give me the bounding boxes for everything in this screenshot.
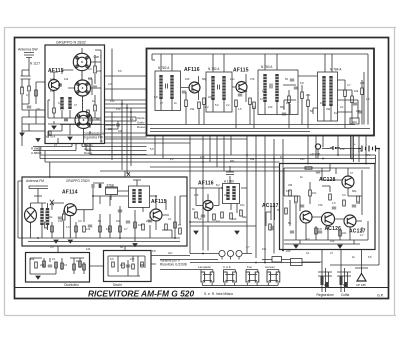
svg-text:1k: 1k bbox=[352, 255, 355, 259]
svg-text:8,2: 8,2 bbox=[280, 155, 284, 159]
svg-text:424: 424 bbox=[352, 120, 357, 124]
svg-text:68p: 68p bbox=[242, 215, 247, 219]
svg-text:N 782 A: N 782 A bbox=[208, 67, 220, 71]
svg-text:22n: 22n bbox=[342, 231, 347, 235]
svg-text:Verde: Verde bbox=[137, 116, 145, 120]
svg-text:6,8: 6,8 bbox=[300, 81, 304, 85]
svg-text:A 886/6: A 886/6 bbox=[31, 151, 42, 155]
svg-text:1,5: 1,5 bbox=[332, 201, 336, 205]
svg-text:+9 Volt: +9 Volt bbox=[310, 153, 320, 157]
svg-text:15n: 15n bbox=[300, 157, 305, 161]
svg-text:12k: 12k bbox=[64, 77, 69, 81]
svg-text:10k: 10k bbox=[320, 101, 325, 105]
svg-text:Dischi: Dischi bbox=[113, 283, 122, 287]
svg-text:470: 470 bbox=[340, 147, 345, 151]
svg-text:47: 47 bbox=[350, 171, 353, 175]
svg-text:Fon: Fon bbox=[247, 265, 253, 269]
svg-text:6,8: 6,8 bbox=[154, 95, 158, 99]
svg-text:22n: 22n bbox=[116, 219, 121, 223]
svg-text:1,5: 1,5 bbox=[366, 97, 370, 101]
svg-text:AF115: AF115 bbox=[151, 199, 167, 205]
svg-text:Ricevitore G.520/B: Ricevitore G.520/B bbox=[160, 263, 187, 267]
svg-text:100: 100 bbox=[232, 217, 237, 221]
svg-text:AF115: AF115 bbox=[233, 68, 249, 74]
svg-text:12k: 12k bbox=[86, 227, 91, 231]
svg-text:47: 47 bbox=[178, 223, 181, 227]
svg-text:3,3: 3,3 bbox=[342, 193, 346, 197]
svg-text:2,2: 2,2 bbox=[216, 219, 220, 223]
svg-text:10k: 10k bbox=[262, 247, 267, 251]
svg-text:Lampada: Lampada bbox=[198, 265, 211, 269]
svg-text:68p: 68p bbox=[280, 105, 285, 109]
svg-text:N 775 A: N 775 A bbox=[45, 135, 55, 139]
svg-text:5,6: 5,6 bbox=[286, 189, 290, 193]
svg-text:2,2: 2,2 bbox=[170, 157, 174, 161]
svg-text:0,1: 0,1 bbox=[130, 117, 134, 121]
svg-text:12k: 12k bbox=[262, 89, 267, 93]
svg-text:47: 47 bbox=[74, 103, 77, 107]
svg-text:5,6: 5,6 bbox=[118, 69, 122, 73]
svg-text:AC126: AC126 bbox=[325, 226, 342, 232]
svg-text:470: 470 bbox=[318, 203, 323, 207]
svg-text:3,3: 3,3 bbox=[88, 67, 92, 71]
svg-text:3,3: 3,3 bbox=[50, 245, 54, 249]
svg-text:Giallo: Giallo bbox=[137, 121, 145, 125]
svg-text:6,8: 6,8 bbox=[318, 227, 322, 231]
svg-text:N 1127: N 1127 bbox=[30, 62, 40, 66]
svg-text:5,6: 5,6 bbox=[215, 103, 219, 107]
svg-text:100: 100 bbox=[185, 77, 190, 81]
svg-text:AP 185: AP 185 bbox=[356, 283, 366, 287]
svg-text:2,2: 2,2 bbox=[306, 237, 310, 241]
svg-text:8,2: 8,2 bbox=[216, 183, 220, 187]
svg-text:10k: 10k bbox=[88, 76, 93, 80]
svg-text:33k: 33k bbox=[250, 157, 255, 161]
svg-text:3,3: 3,3 bbox=[356, 109, 360, 113]
svg-text:8,2: 8,2 bbox=[205, 105, 209, 109]
svg-text:22n: 22n bbox=[36, 107, 41, 111]
svg-text:12k: 12k bbox=[86, 247, 91, 251]
svg-text:47: 47 bbox=[330, 251, 333, 255]
svg-text:22n: 22n bbox=[168, 251, 173, 255]
svg-text:15n: 15n bbox=[240, 203, 245, 207]
svg-text:22n: 22n bbox=[208, 95, 213, 99]
svg-text:Rosso: Rosso bbox=[137, 125, 146, 129]
svg-text:4,7: 4,7 bbox=[124, 227, 128, 231]
svg-text:6,8: 6,8 bbox=[106, 227, 110, 231]
svg-text:220: 220 bbox=[190, 89, 195, 93]
svg-text:1k: 1k bbox=[174, 101, 177, 105]
svg-text:220: 220 bbox=[286, 249, 291, 253]
svg-text:5,6: 5,6 bbox=[150, 147, 154, 151]
svg-text:8,2: 8,2 bbox=[334, 111, 338, 115]
svg-text:10k: 10k bbox=[30, 257, 35, 261]
svg-text:33k: 33k bbox=[224, 193, 229, 197]
svg-text:56: 56 bbox=[98, 219, 101, 223]
svg-text:2,2: 2,2 bbox=[226, 103, 230, 107]
svg-text:1,5: 1,5 bbox=[238, 107, 242, 111]
svg-text:10k: 10k bbox=[138, 223, 143, 227]
svg-text:Antenna FM: Antenna FM bbox=[26, 179, 44, 183]
svg-text:di gamma FM: di gamma FM bbox=[83, 136, 103, 140]
svg-text:2,2: 2,2 bbox=[108, 82, 112, 86]
svg-text:12k: 12k bbox=[356, 201, 361, 205]
svg-text:56: 56 bbox=[288, 221, 291, 225]
svg-text:470: 470 bbox=[194, 193, 199, 197]
svg-text:GRUPPO N 2832: GRUPPO N 2832 bbox=[56, 41, 86, 45]
svg-text:AF115: AF115 bbox=[48, 68, 64, 74]
svg-text:68p: 68p bbox=[230, 159, 235, 163]
svg-text:10k: 10k bbox=[118, 129, 123, 133]
svg-text:8,2: 8,2 bbox=[343, 283, 347, 287]
svg-text:5,6: 5,6 bbox=[110, 257, 114, 261]
svg-text:4,7: 4,7 bbox=[50, 77, 54, 81]
svg-text:AF116: AF116 bbox=[184, 67, 200, 73]
svg-text:470: 470 bbox=[116, 107, 121, 111]
svg-text:AC127: AC127 bbox=[262, 203, 279, 209]
svg-text:33k: 33k bbox=[288, 183, 293, 187]
svg-text:15n: 15n bbox=[230, 77, 235, 81]
svg-text:Gar 7: Gar 7 bbox=[94, 55, 102, 59]
svg-text:100: 100 bbox=[130, 257, 135, 261]
svg-text:4,7: 4,7 bbox=[260, 97, 264, 101]
svg-text:5,6: 5,6 bbox=[198, 217, 202, 221]
svg-text:Rosso: Rosso bbox=[84, 151, 93, 155]
svg-text:N 783 A: N 783 A bbox=[261, 65, 273, 69]
svg-text:0,1: 0,1 bbox=[244, 89, 248, 93]
svg-text:4,7: 4,7 bbox=[360, 233, 364, 237]
svg-text:3,3: 3,3 bbox=[252, 105, 256, 109]
svg-text:220: 220 bbox=[146, 219, 151, 223]
svg-text:68p: 68p bbox=[202, 77, 207, 81]
svg-text:S. e. R. Intra Milano: S. e. R. Intra Milano bbox=[204, 292, 233, 296]
svg-text:100: 100 bbox=[268, 105, 273, 109]
svg-text:AF114: AF114 bbox=[62, 190, 78, 196]
svg-text:47: 47 bbox=[160, 101, 163, 105]
svg-text:10k: 10k bbox=[354, 89, 359, 93]
svg-text:68p: 68p bbox=[352, 189, 357, 193]
svg-text:AC128: AC128 bbox=[319, 177, 336, 183]
svg-text:15n: 15n bbox=[110, 99, 115, 103]
svg-text:33k: 33k bbox=[324, 283, 329, 287]
svg-text:100: 100 bbox=[330, 239, 335, 243]
svg-text:5,6: 5,6 bbox=[368, 255, 372, 259]
svg-text:1,5: 1,5 bbox=[66, 225, 70, 229]
svg-text:8,2: 8,2 bbox=[294, 201, 298, 205]
svg-text:9 V: 9 V bbox=[366, 153, 370, 157]
svg-text:4,7: 4,7 bbox=[347, 83, 351, 87]
svg-text:Cuffia: Cuffia bbox=[341, 293, 349, 297]
svg-text:GRUPPO 2782/I: GRUPPO 2782/I bbox=[66, 179, 90, 183]
svg-text:1,5: 1,5 bbox=[60, 107, 64, 111]
svg-text:1k: 1k bbox=[192, 207, 195, 211]
svg-text:68p: 68p bbox=[140, 263, 145, 267]
svg-text:33k: 33k bbox=[190, 107, 195, 111]
svg-text:47: 47 bbox=[64, 263, 67, 267]
svg-text:6,8: 6,8 bbox=[50, 89, 54, 93]
svg-text:100: 100 bbox=[200, 155, 205, 159]
svg-text:+: + bbox=[354, 142, 356, 146]
svg-text:470: 470 bbox=[58, 219, 63, 223]
svg-text:4,7: 4,7 bbox=[246, 245, 250, 249]
svg-text:15n: 15n bbox=[48, 215, 53, 219]
svg-text:0,1: 0,1 bbox=[306, 251, 310, 255]
svg-text:15n: 15n bbox=[312, 191, 317, 195]
svg-text:56: 56 bbox=[285, 77, 288, 81]
svg-text:Acceso: Acceso bbox=[265, 265, 275, 269]
svg-text:AF116: AF116 bbox=[198, 180, 214, 186]
svg-text:0,1: 0,1 bbox=[168, 217, 172, 221]
svg-text:22n: 22n bbox=[306, 93, 311, 97]
svg-text:220: 220 bbox=[360, 81, 365, 85]
svg-text:1,5: 1,5 bbox=[358, 149, 362, 153]
svg-text:3768: 3768 bbox=[107, 183, 114, 187]
svg-text:470: 470 bbox=[250, 77, 255, 81]
svg-text:N 784 A: N 784 A bbox=[330, 68, 342, 72]
svg-text:4,7: 4,7 bbox=[26, 93, 30, 97]
svg-text:0,1: 0,1 bbox=[52, 257, 56, 261]
svg-text:Occhiolino: Occhiolino bbox=[64, 283, 79, 287]
svg-text:Registratore: Registratore bbox=[317, 293, 335, 297]
svg-text:1k: 1k bbox=[300, 175, 303, 179]
svg-text:G.P.: G.P. bbox=[377, 294, 384, 298]
svg-text:0,1: 0,1 bbox=[340, 105, 344, 109]
svg-text:6,8: 6,8 bbox=[152, 249, 156, 253]
svg-text:220: 220 bbox=[40, 263, 45, 267]
svg-text:2,2: 2,2 bbox=[120, 263, 124, 267]
svg-text:RICEVITORE AM-FM G 520: RICEVITORE AM-FM G 520 bbox=[88, 289, 194, 299]
svg-text:220: 220 bbox=[108, 127, 113, 131]
svg-text:33k: 33k bbox=[326, 107, 331, 111]
svg-text:N 782 A: N 782 A bbox=[158, 66, 170, 70]
svg-text:A 1769: A 1769 bbox=[224, 179, 234, 183]
svg-text:C.A.F.: C.A.F. bbox=[223, 265, 231, 269]
svg-text:12k: 12k bbox=[286, 101, 291, 105]
svg-text:3,3: 3,3 bbox=[78, 219, 82, 223]
svg-text:1k: 1k bbox=[100, 139, 103, 143]
svg-text:0,1: 0,1 bbox=[58, 101, 62, 105]
svg-text:220: 220 bbox=[97, 69, 102, 73]
svg-text:Antenna SW: Antenna SW bbox=[18, 48, 38, 52]
